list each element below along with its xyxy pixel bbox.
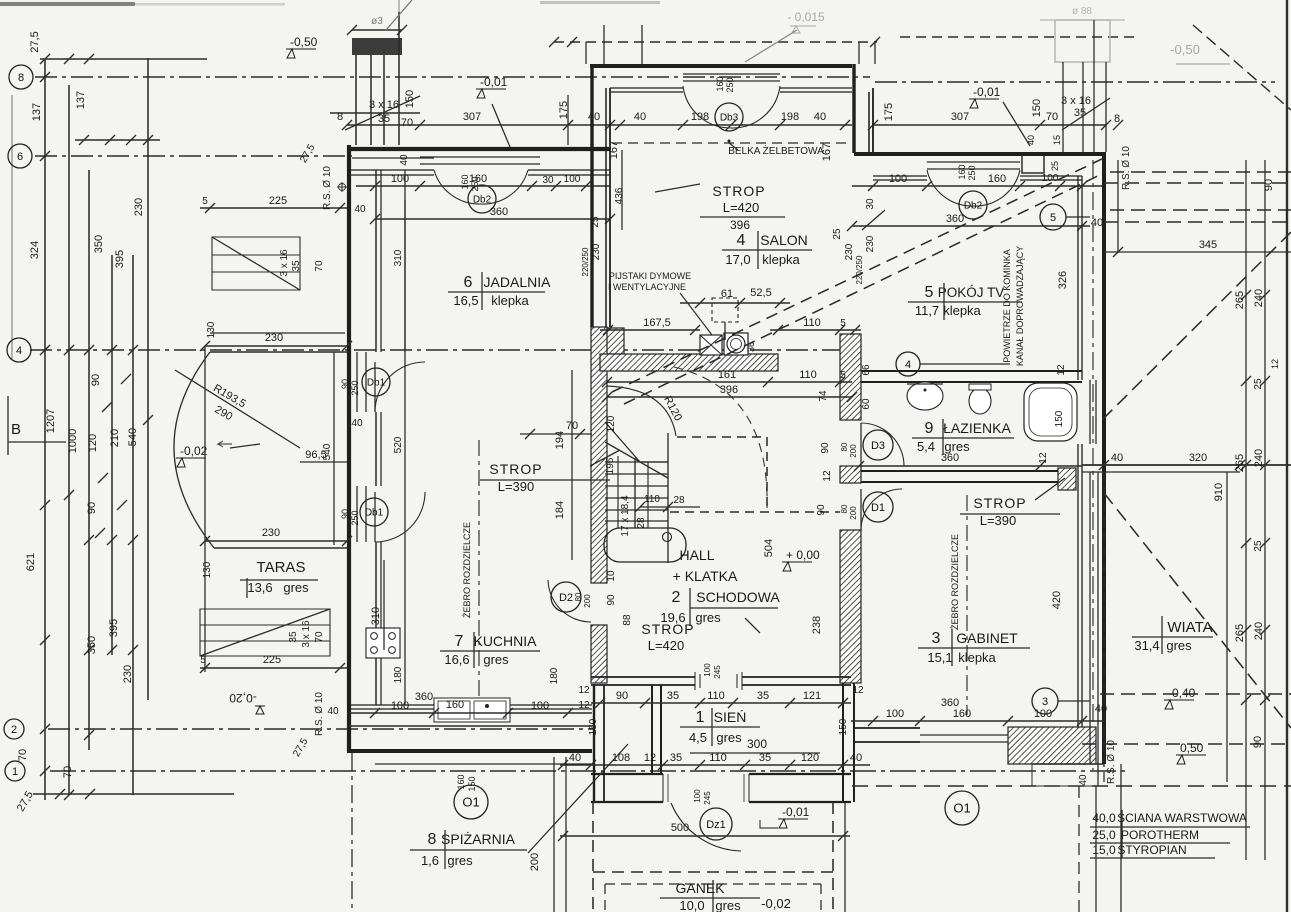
svg-text:TARAS: TARAS <box>257 559 306 576</box>
svg-text:Db2: Db2 <box>964 201 983 212</box>
svg-text:324: 324 <box>29 241 41 259</box>
sien top wall <box>591 677 851 685</box>
axis bubble 8 <box>9 65 33 89</box>
gabinet south wall <box>854 728 1014 742</box>
svg-text:230: 230 <box>844 243 855 260</box>
window Db3 bubble <box>715 103 743 131</box>
svg-text:SCHODOWA: SCHODOWA <box>696 589 780 605</box>
taras radius line <box>175 370 300 448</box>
taras top line <box>210 351 347 353</box>
svg-text:220/250: 220/250 <box>581 247 590 276</box>
svg-text:100: 100 <box>391 700 409 712</box>
svg-text:5: 5 <box>925 284 934 301</box>
svg-text:L=390: L=390 <box>498 479 535 494</box>
lazienka bathtub <box>1024 383 1077 441</box>
window Db2 pokoj tv arcs <box>927 170 973 206</box>
svg-text:540: 540 <box>322 443 333 460</box>
door D1 bubble <box>863 492 893 522</box>
svg-text:360: 360 <box>415 691 433 703</box>
sien east wall <box>842 683 844 802</box>
svg-text:klepka: klepka <box>958 650 996 665</box>
svg-text:307: 307 <box>463 111 481 123</box>
svg-text:PIJSTAKI DYMOWE: PIJSTAKI DYMOWE <box>609 271 691 281</box>
svg-text:40: 40 <box>351 418 363 429</box>
svg-text:25,0: 25,0 <box>1092 828 1116 842</box>
svg-text:250: 250 <box>350 380 360 395</box>
svg-text:SIEŃ: SIEŃ <box>714 709 747 725</box>
stairs dashed headroom arc <box>674 367 767 508</box>
svg-text:ŁAZIENKA: ŁAZIENKA <box>943 420 1011 436</box>
svg-text:-0,02: -0,02 <box>761 896 791 911</box>
svg-text:200: 200 <box>849 506 858 520</box>
svg-text:110: 110 <box>644 494 660 505</box>
svg-text:40: 40 <box>569 752 581 764</box>
svg-text:167,5: 167,5 <box>643 317 671 329</box>
taras mid line <box>214 547 347 549</box>
svg-text:90: 90 <box>616 690 628 702</box>
svg-text:11,7: 11,7 <box>915 303 939 318</box>
svg-text:150: 150 <box>588 718 599 735</box>
salon eaves dashed line <box>612 142 850 144</box>
svg-text:150: 150 <box>404 90 416 108</box>
svg-text:gres: gres <box>283 580 309 595</box>
top right dim row <box>873 124 1106 126</box>
axis bubble 4 <box>7 338 31 362</box>
svg-text:6: 6 <box>464 274 473 291</box>
svg-text:1000: 1000 <box>67 429 79 453</box>
svg-text:POWIETRZE DO KOMINKA: POWIETRZE DO KOMINKA <box>1002 249 1012 363</box>
wiata dashed lower b <box>1082 743 1291 745</box>
svg-text:STROP: STROP <box>489 461 542 477</box>
jadalnia wall insulation line <box>352 157 434 159</box>
svg-text:-0,01: -0,01 <box>480 75 508 89</box>
svg-text:Db1: Db1 <box>365 508 384 519</box>
svg-text:245: 245 <box>703 791 712 805</box>
svg-text:31,4: 31,4 <box>1134 638 1159 653</box>
axis 4 line <box>30 349 855 351</box>
svg-text:120: 120 <box>87 434 99 452</box>
svg-text:130: 130 <box>206 321 217 338</box>
svg-text:300: 300 <box>747 737 767 751</box>
svg-text:70: 70 <box>401 117 413 129</box>
svg-text:40: 40 <box>399 154 410 166</box>
svg-text:120: 120 <box>606 415 617 432</box>
svg-text:12: 12 <box>578 700 590 711</box>
svg-text:60: 60 <box>861 398 872 410</box>
svg-text:100: 100 <box>531 700 549 712</box>
svg-text:KANAŁ DOPROWADZAJĄCY: KANAŁ DOPROWADZAJĄCY <box>1015 246 1025 366</box>
svg-text:70: 70 <box>62 766 74 778</box>
svg-text:klepka: klepka <box>943 303 981 318</box>
svg-text:12: 12 <box>578 685 590 696</box>
svg-text:520: 520 <box>393 436 404 453</box>
svg-text:395: 395 <box>114 250 126 268</box>
svg-text:R.S. Ø 10: R.S. Ø 10 <box>1106 740 1117 784</box>
dim rows lazienka strop <box>859 489 1082 491</box>
svg-text:- 0,015: - 0,015 <box>787 10 825 24</box>
svg-text:ø3: ø3 <box>371 16 383 27</box>
lazienka south wall hatched block <box>1058 468 1076 490</box>
wall jadalnia north <box>347 147 610 151</box>
dim 230 jadalnia west <box>205 332 347 334</box>
dim 167,5 <box>600 329 700 331</box>
salon bay west wall <box>590 64 593 327</box>
pokoj tv wall notch <box>1022 155 1044 173</box>
svg-text:ŚCIANA WARSTWOWA: ŚCIANA WARSTWOWA <box>1117 810 1247 825</box>
svg-text:70: 70 <box>314 260 325 272</box>
svg-text:STROP: STROP <box>973 495 1026 511</box>
svg-text:90: 90 <box>820 442 831 454</box>
svg-text:230: 230 <box>262 527 280 539</box>
svg-text:225: 225 <box>263 654 281 666</box>
svg-text:12: 12 <box>822 470 833 482</box>
svg-text:150: 150 <box>1031 99 1043 117</box>
svg-text:130: 130 <box>202 561 213 578</box>
svg-text:395: 395 <box>108 619 120 637</box>
svg-text:420: 420 <box>1051 591 1063 609</box>
svg-text:360: 360 <box>946 213 964 225</box>
svg-text:POKÓJ TV: POKÓJ TV <box>938 285 1005 300</box>
svg-text:4: 4 <box>16 345 22 357</box>
svg-text:2: 2 <box>11 724 17 736</box>
svg-text:90: 90 <box>86 502 98 514</box>
svg-text:150: 150 <box>838 718 849 735</box>
taras inner edge vertical <box>333 352 335 545</box>
svg-text:210: 210 <box>109 429 121 447</box>
svg-text:ŻEBRO ROZDZIELCZE: ŻEBRO ROZDZIELCZE <box>462 522 472 618</box>
top dim row y125 left <box>347 124 610 126</box>
svg-text:40: 40 <box>1026 135 1036 145</box>
svg-text:396: 396 <box>720 384 738 396</box>
taras left dim vertical <box>204 346 206 672</box>
kitchen stove <box>366 628 400 658</box>
svg-text:161: 161 <box>718 369 736 381</box>
svg-text:40: 40 <box>850 752 862 764</box>
svg-text:13,6: 13,6 <box>247 580 272 595</box>
svg-text:GABINET: GABINET <box>956 630 1018 646</box>
axis 6 line <box>35 155 352 157</box>
svg-text:L=390: L=390 <box>980 513 1017 528</box>
svg-text:70: 70 <box>1046 111 1058 123</box>
svg-text:35: 35 <box>757 690 769 702</box>
svg-text:Db2: Db2 <box>473 195 492 206</box>
svg-text:40: 40 <box>1095 703 1107 715</box>
svg-text:D3: D3 <box>871 440 885 452</box>
svg-text:90: 90 <box>1263 179 1275 191</box>
svg-text:200: 200 <box>583 594 592 608</box>
hall top dim rows <box>607 381 852 383</box>
left dimension line d <box>111 255 113 655</box>
door Db1 upper swing <box>375 362 425 412</box>
hall east wall hatched mid <box>840 466 861 483</box>
svg-text:90: 90 <box>816 504 827 516</box>
roof dashed diagonal down-left <box>1102 232 1291 420</box>
roof verticals above salon bay <box>585 42 587 64</box>
svg-text:240: 240 <box>1253 622 1265 640</box>
kominek dashed duct line b <box>624 172 1106 404</box>
axis bubble 2 <box>4 719 24 739</box>
svg-text:I WENTYLACYJNE: I WENTYLACYJNE <box>608 282 686 292</box>
svg-text:326: 326 <box>1057 271 1069 289</box>
svg-text:25: 25 <box>1253 540 1264 552</box>
svg-text:+ 0,00: + 0,00 <box>786 548 820 562</box>
svg-text:110: 110 <box>803 317 821 329</box>
svg-text:STROP: STROP <box>641 621 694 637</box>
svg-text:540: 540 <box>127 428 139 446</box>
svg-text:5: 5 <box>840 370 846 381</box>
roof dashed right horizontals <box>1110 171 1291 173</box>
svg-text:90: 90 <box>90 374 102 386</box>
svg-text:O1: O1 <box>462 795 479 810</box>
left dimension line b <box>68 85 70 795</box>
svg-text:-0,01: -0,01 <box>782 805 810 819</box>
scan edge top-center streak <box>540 1 660 4</box>
svg-text:35: 35 <box>667 690 679 702</box>
ganek dashed inner outline <box>604 884 606 912</box>
wall jadalnia west inner <box>375 170 377 705</box>
svg-text:70: 70 <box>314 631 325 643</box>
bottom right step lines <box>1032 763 1104 765</box>
chimney flue circle <box>724 333 748 355</box>
svg-text:320: 320 <box>1189 452 1207 464</box>
bubble O1 left <box>454 785 488 819</box>
sien bottom wall <box>591 774 851 802</box>
svg-text:gres: gres <box>695 610 721 625</box>
svg-text:25: 25 <box>1253 378 1264 390</box>
svg-text:307: 307 <box>951 111 969 123</box>
hall west wall corner hatched <box>592 328 624 354</box>
svg-text:350: 350 <box>86 636 98 654</box>
svg-text:220/250: 220/250 <box>855 255 864 284</box>
svg-text:30: 30 <box>865 198 876 210</box>
sien dim row lower <box>560 764 870 766</box>
axis 8 line <box>35 76 870 78</box>
svg-text:70: 70 <box>17 749 29 761</box>
svg-text:SALON: SALON <box>760 232 807 248</box>
svg-text:61: 61 <box>721 288 733 300</box>
svg-text:D2: D2 <box>559 592 573 604</box>
svg-text:9: 9 <box>925 420 934 437</box>
svg-text:436: 436 <box>614 187 625 204</box>
roof dashed diagonal top-right corner <box>1193 25 1291 110</box>
svg-text:12: 12 <box>1270 359 1280 369</box>
chimney flue square <box>700 335 722 355</box>
chimney dim 61 52,5 <box>680 302 790 304</box>
svg-text:350: 350 <box>93 235 105 253</box>
svg-text:1207: 1207 <box>45 409 57 433</box>
door D2 bubble <box>551 582 581 612</box>
svg-text:GANEK: GANEK <box>675 880 725 896</box>
stairs bottom landing <box>604 528 686 562</box>
svg-text:225: 225 <box>269 195 287 207</box>
window Db2 jadalnia arcs <box>434 170 481 204</box>
svg-text:8: 8 <box>18 72 24 84</box>
svg-text:238: 238 <box>811 616 823 634</box>
kominek dashed duct line a <box>612 158 1104 392</box>
svg-text:16,5: 16,5 <box>453 293 478 308</box>
svg-text:160: 160 <box>988 173 1006 185</box>
left second dim row <box>75 139 160 141</box>
wiata vertical dim line a <box>1226 472 1228 782</box>
svg-text:HALL: HALL <box>679 547 714 563</box>
kuchnia south wall <box>347 705 592 709</box>
svg-text:3 x 16: 3 x 16 <box>369 99 399 111</box>
wiata dashed lower a <box>1100 693 1291 695</box>
taras bay arc <box>174 352 214 548</box>
left bottom line 27,5 <box>33 793 234 795</box>
svg-text:-0,02: -0,02 <box>180 444 208 458</box>
gabinet south window dim row <box>851 720 1104 722</box>
svg-text:gres: gres <box>447 853 473 868</box>
dim 230 north <box>205 345 347 347</box>
east wall axis dashed <box>1092 160 1094 770</box>
svg-text:100: 100 <box>703 663 712 677</box>
svg-text:245: 245 <box>713 665 722 679</box>
svg-text:17 x 18,4: 17 x 18,4 <box>620 495 631 537</box>
axis 1 line <box>50 770 1130 772</box>
bubble O1 right <box>945 791 979 825</box>
hall east wall hatched upper <box>840 334 861 420</box>
roof dashed line above salon <box>554 41 877 43</box>
svg-text:3 x 16: 3 x 16 <box>279 249 290 277</box>
svg-text:35: 35 <box>1074 107 1086 119</box>
svg-text:90: 90 <box>606 594 617 606</box>
svg-text:180: 180 <box>393 666 404 683</box>
stairs treads <box>605 461 668 463</box>
svg-text:KUCHNIA: KUCHNIA <box>473 633 537 649</box>
axis 2 line <box>48 728 595 730</box>
svg-text:100: 100 <box>693 789 702 803</box>
window Db3 arcs <box>683 86 731 128</box>
taras steps south <box>200 609 330 656</box>
svg-text:gres: gres <box>483 652 509 667</box>
svg-text:5,4: 5,4 <box>917 439 935 454</box>
svg-text:110: 110 <box>709 752 727 764</box>
ganek dashed outline <box>592 802 594 912</box>
taras dim 225 <box>200 667 347 669</box>
svg-text:310: 310 <box>370 607 382 625</box>
svg-text:POROTHERM: POROTHERM <box>1121 828 1199 842</box>
svg-text:27,5: 27,5 <box>29 31 41 52</box>
door Db1 upper bubble <box>362 368 390 396</box>
svg-text:WIATA: WIATA <box>1167 619 1212 636</box>
dim 110 5 upper <box>770 329 861 331</box>
top-left dim row 3x16 <box>330 112 420 114</box>
svg-text:ŻEBRO ROZDZIELCZE: ŻEBRO ROZDZIELCZE <box>950 534 960 630</box>
svg-text:-0,50: -0,50 <box>290 35 318 49</box>
pokoj tv east wall <box>1102 154 1106 764</box>
svg-text:250: 250 <box>967 165 977 180</box>
svg-text:SPIŻARNIA: SPIŻARNIA <box>441 830 516 847</box>
svg-text:STROP: STROP <box>712 183 765 199</box>
svg-text:JADALNIA: JADALNIA <box>484 274 552 290</box>
svg-text:40: 40 <box>588 111 600 123</box>
salon bay east wall <box>852 64 855 153</box>
ganek side solid lines <box>553 757 555 912</box>
svg-text:12: 12 <box>1038 452 1049 464</box>
svg-text:gres: gres <box>715 898 741 912</box>
door Db1 lower swing <box>375 492 425 542</box>
svg-text:BELKA ŻELBETOWA: BELKA ŻELBETOWA <box>728 144 824 157</box>
svg-text:360: 360 <box>941 697 959 709</box>
svg-text:160: 160 <box>715 76 725 91</box>
svg-text:gres: gres <box>716 730 742 745</box>
svg-text:504: 504 <box>763 539 775 557</box>
taras dim 230 mid <box>205 540 347 542</box>
jadalnia window dim row <box>356 185 610 187</box>
svg-text:4: 4 <box>905 359 911 371</box>
dim 310 jadalnia <box>404 200 406 352</box>
svg-text:Db1: Db1 <box>367 378 386 389</box>
svg-text:40: 40 <box>1111 452 1123 464</box>
svg-text:35: 35 <box>288 631 299 643</box>
svg-text:35: 35 <box>670 752 682 764</box>
svg-text:28: 28 <box>673 495 685 506</box>
svg-text:160: 160 <box>446 699 464 711</box>
svg-text:30: 30 <box>542 175 554 186</box>
svg-text:265: 265 <box>1234 624 1246 642</box>
dim 96,5 <box>300 461 347 463</box>
svg-text:gres: gres <box>1166 638 1192 653</box>
svg-text:-0,40: -0,40 <box>1168 686 1196 700</box>
svg-text:194: 194 <box>554 431 566 449</box>
svg-text:160: 160 <box>957 164 967 179</box>
svg-text:R.S. Ø 10: R.S. Ø 10 <box>1121 146 1132 190</box>
svg-text:3 x 16: 3 x 16 <box>301 620 312 648</box>
svg-text:250: 250 <box>350 510 360 525</box>
top-right chimney faint <box>1055 20 1110 62</box>
salon dims 436 <box>621 150 623 230</box>
gabinet south hatched corner <box>1008 727 1096 764</box>
dim 500 <box>560 835 850 837</box>
svg-text:74: 74 <box>818 390 829 402</box>
svg-text:250: 250 <box>725 77 735 92</box>
svg-text:240: 240 <box>1253 449 1265 467</box>
svg-text:100: 100 <box>889 173 907 185</box>
svg-text:230: 230 <box>122 665 134 683</box>
wall jadalnia west outer <box>347 145 351 751</box>
svg-text:2: 2 <box>672 589 681 606</box>
taras dim 230 top <box>205 345 347 347</box>
svg-text:121: 121 <box>803 690 821 702</box>
axis bubble 1 <box>5 761 25 781</box>
svg-text:265: 265 <box>1234 454 1246 472</box>
chimney dashed box <box>712 298 738 322</box>
svg-text:100: 100 <box>391 173 409 185</box>
svg-text:D1: D1 <box>871 502 885 514</box>
svg-text:230: 230 <box>265 332 283 344</box>
svg-text:5: 5 <box>200 655 206 666</box>
stairs direction line <box>647 462 649 528</box>
kitchen counter sink <box>434 698 510 722</box>
left top dim line 137 <box>40 58 207 60</box>
svg-text:10,0: 10,0 <box>679 898 704 912</box>
left dimension line e <box>132 255 134 795</box>
scan edge right border <box>1286 0 1288 912</box>
svg-text:1: 1 <box>696 709 705 726</box>
salon bay north wall <box>590 64 852 68</box>
svg-text:80: 80 <box>840 504 849 513</box>
svg-text:150: 150 <box>1054 410 1065 427</box>
svg-text:184: 184 <box>554 501 566 519</box>
svg-text:8: 8 <box>428 831 437 848</box>
stairs dashed opening lines <box>677 436 767 438</box>
stairs winder treads <box>605 442 668 478</box>
lazienka north wall <box>859 370 1082 372</box>
svg-text:360: 360 <box>490 206 508 218</box>
dim 90 vertical line right <box>1117 160 1119 252</box>
wiata horizontal line <box>1082 464 1291 466</box>
